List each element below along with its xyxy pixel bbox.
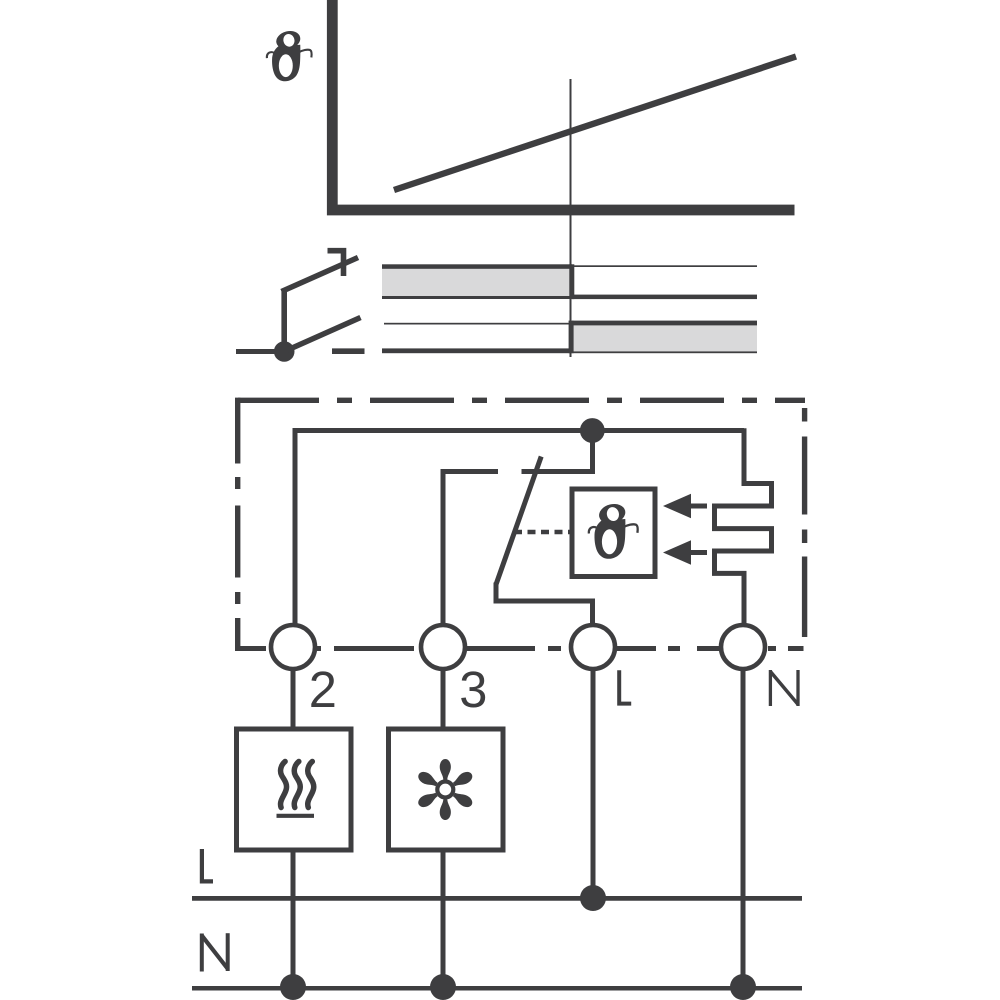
dash-dot enclosure top edge xyxy=(238,398,805,403)
N rail label xyxy=(202,933,228,971)
temperature ramp line xyxy=(394,57,796,191)
wire heater to N rail xyxy=(291,850,296,983)
arrow upper xyxy=(684,504,707,509)
actuating dotted link xyxy=(514,530,572,535)
changeover contact pivot dot xyxy=(274,341,295,362)
heater symbol squiggle 2 xyxy=(294,762,300,808)
junction dot N rail terminal N xyxy=(730,974,756,1000)
axis label theta xyxy=(267,29,312,82)
heater symbol squiggle 1 xyxy=(281,762,287,808)
lower fixed contact dash xyxy=(332,348,365,354)
switching threshold vertical line xyxy=(570,79,572,357)
junction dot on bus xyxy=(580,418,605,443)
timing row 1 gray bar (left, ON) xyxy=(382,267,572,297)
upper contact hook xyxy=(328,251,344,276)
wire terminal 2 to heater xyxy=(291,669,296,729)
timing row 1 right low thick xyxy=(572,295,757,300)
graph axes xyxy=(332,0,794,210)
upper contact arm diagonal xyxy=(282,258,359,292)
wire from arm pivot to terminal L xyxy=(496,583,593,626)
internal top bus wire and wire down to terminal 2 xyxy=(295,431,744,626)
junction dot N rail heater xyxy=(280,974,306,1000)
wire terminal N to N rail xyxy=(741,669,746,983)
fan load box xyxy=(389,729,504,850)
heating element meander xyxy=(715,428,772,625)
heater symbol squiggle 3 xyxy=(308,762,314,808)
junction dot N rail fan xyxy=(430,974,456,1000)
fan symbol hub ring xyxy=(437,782,453,798)
contact arm riser xyxy=(281,290,287,352)
timing row 2 left low thick xyxy=(382,348,572,353)
timing row 1 right baseline thin xyxy=(572,265,757,267)
lower contact arm diagonal xyxy=(284,318,360,352)
terminal label N xyxy=(770,670,798,706)
dash-dot enclosure right edge xyxy=(802,408,807,637)
dash-dot enclosure left edge xyxy=(235,398,240,649)
arrow lower xyxy=(684,550,707,555)
terminal label L xyxy=(619,670,631,703)
fan symbol petals xyxy=(416,759,474,820)
N rail xyxy=(192,986,802,991)
L rail xyxy=(192,896,802,901)
terminal 2 circle xyxy=(271,625,315,669)
fixed contact segment left and wire up from terminal 3 xyxy=(443,472,498,626)
internal switch moving arm xyxy=(496,457,541,585)
L rail label xyxy=(202,849,213,881)
heater load box xyxy=(237,729,352,850)
svg-text:2: 2 xyxy=(309,661,337,718)
heater symbol underline xyxy=(277,814,315,818)
sensor box xyxy=(572,489,655,577)
timing row 2 step connector xyxy=(569,321,574,354)
junction dot L rail xyxy=(580,885,606,911)
timing row 2 left baseline thin xyxy=(384,323,569,325)
terminal 3 circle xyxy=(421,625,465,669)
timing row 2 gray bar (right, ON) xyxy=(572,325,757,351)
sensor theta glyph xyxy=(589,501,638,559)
terminal N circle xyxy=(721,625,765,669)
timing row 1 step connector xyxy=(569,264,574,299)
wire terminal L to L rail xyxy=(591,669,596,893)
dash-dot enclosure bottom edge segments xyxy=(235,646,804,651)
svg-text:3: 3 xyxy=(459,661,487,718)
wire fan to N rail xyxy=(441,850,446,983)
wire terminal 3 to fan xyxy=(441,669,446,729)
changeover contact symbol: common lead xyxy=(236,349,284,354)
terminal L circle xyxy=(571,625,615,669)
wire from junction down to fixed contact xyxy=(522,431,593,472)
